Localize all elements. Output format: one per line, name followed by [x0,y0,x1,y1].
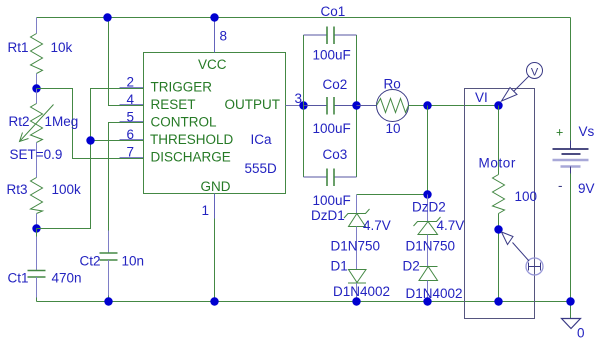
wire cap ladder right rail [356,35,358,177]
pin stub [120,121,144,123]
svg-text:8: 8 [220,29,228,44]
resistor Rt3 [31,178,43,229]
capacitor Co1 [304,27,357,45]
svg-text:D1N750: D1N750 [331,239,381,254]
svg-text:10n: 10n [122,254,145,269]
node zener row junction [423,190,431,198]
svg-text:D1N4002: D1N4002 [406,286,463,301]
node Ro right / zener branch [423,101,431,109]
capacitor Co3 [304,169,357,187]
svg-text:Vs: Vs [579,124,595,139]
node D2 ground [423,297,431,305]
node pin1 ground [210,297,218,305]
pin stub [120,87,144,89]
svg-text:4.7V: 4.7V [437,218,465,233]
svg-text:4: 4 [127,92,135,107]
svg-text:470n: 470n [52,271,82,286]
wire battery to bottom rail [570,167,572,302]
voltage probe V marker [502,63,543,102]
wire motor top lead [498,106,500,175]
svg-text:CONTROL: CONTROL [151,115,217,130]
svg-text:RESET: RESET [151,97,196,112]
resistor Motor 100 [493,175,505,214]
wire motor bottom lead [498,214,500,302]
wire zener row horizontal [357,194,428,196]
svg-text:1Meg: 1Meg [45,114,79,129]
svg-text:D1N750: D1N750 [406,239,456,254]
svg-text:+: + [556,126,563,140]
svg-text:D1: D1 [331,259,348,274]
diode D2 [419,267,438,302]
svg-text:4.7V: 4.7V [363,218,391,233]
svg-text:Co2: Co2 [323,77,348,92]
pin 8 stub [214,18,216,53]
svg-text:3: 3 [295,91,303,106]
wire to Ro [357,105,377,107]
svg-text:Ct1: Ct1 [8,271,29,286]
svg-text:Motor: Motor [479,156,517,171]
svg-text:9V: 9V [578,181,595,196]
svg-text:DzD2: DzD2 [412,200,446,215]
node output / cap left rail [299,101,307,109]
capacitor Ct2 [100,231,118,302]
resistor Ro in circle [377,90,409,122]
node D1 ground [352,297,360,305]
capacitor Ct1 [28,229,46,302]
node Rt3/Ct1 junction [32,224,40,232]
svg-text:-: - [558,178,563,193]
svg-text:ICa: ICa [251,132,273,147]
svg-text:D1N4002: D1N4002 [333,284,390,299]
svg-text:OUTPUT: OUTPUT [225,97,281,112]
current probe H marker [502,232,544,275]
svg-text:555D: 555D [245,161,278,176]
node Ct2 ground [104,297,112,305]
node pin6 junction [86,136,94,144]
diode D1 [348,270,366,302]
battery Vs [553,141,589,174]
wire trigger/threshold net [37,89,144,229]
svg-text:6: 6 [127,127,135,142]
svg-text:Ct2: Ct2 [80,254,101,269]
svg-text:Rt3: Rt3 [7,182,28,197]
wire discharge: node A to pin7 [37,89,144,159]
svg-text:100uF: 100uF [313,193,351,208]
resistor Rt2 (variable) [20,89,54,178]
svg-text:0: 0 [577,326,585,341]
svg-text:GND: GND [201,179,231,194]
node cap right rail / Ro [352,101,360,109]
wire cap ladder left rail [303,35,305,177]
pin stub [120,104,144,106]
pin 3 output wire [286,105,304,107]
svg-text:VI: VI [475,90,488,105]
svg-text:10k: 10k [51,40,73,55]
svg-text:100k: 100k [52,182,82,197]
svg-text:Rt2: Rt2 [9,114,30,129]
svg-text:10: 10 [386,121,401,136]
svg-text:2: 2 [127,75,135,90]
wire pin6 branch [91,140,144,142]
svg-text:D2: D2 [403,259,420,274]
pin stub [120,139,144,141]
VI measurement box [465,89,535,319]
node Rt1/Rt2 junction [32,84,40,92]
node motor top [494,101,502,109]
node motor ground [494,297,502,305]
svg-text:Ro: Ro [384,77,401,92]
svg-text:VCC: VCC [198,57,227,72]
resistor Rt1 [31,34,43,89]
diode DzD1 zener [344,195,370,270]
wire right rail to battery [570,18,572,149]
ground symbol 0 [562,319,581,329]
node top rail pin8 [210,13,218,21]
pin stub [120,157,144,159]
svg-text:V: V [531,67,539,79]
svg-text:TRIGGER: TRIGGER [151,80,213,95]
wire Ro to motor node [409,105,499,107]
svg-text:Co1: Co1 [321,4,346,19]
wire reset pin4 from top rail [109,18,144,106]
diode DzD2 zener [414,195,441,267]
wire top rail [37,17,571,19]
node battery ground rail [566,297,574,305]
wire zener branch vertical [427,106,429,195]
op-amp U1 555 timer box ICa [144,53,286,194]
wire ground stub [570,302,572,319]
svg-text:100uF: 100uF [313,48,351,63]
node top rail / reset [103,13,111,21]
node motor bottom probe [494,225,502,233]
svg-text:5: 5 [127,110,135,125]
svg-text:DzD1: DzD1 [311,208,345,223]
svg-text:DISCHARGE: DISCHARGE [151,150,231,165]
svg-text:SET=0.9: SET=0.9 [10,147,63,162]
wire control pin5 to Ct2 [109,123,144,231]
capacitor Co2 [304,97,357,115]
svg-text:Co3: Co3 [323,147,348,162]
svg-text:100uF: 100uF [313,121,351,136]
pin 1 stub [214,194,216,302]
svg-text:100: 100 [515,189,538,204]
svg-text:1: 1 [202,203,210,218]
svg-text:Rt1: Rt1 [8,40,29,55]
wire left rail top [36,18,38,34]
wire bottom rail [37,301,571,303]
svg-text:7: 7 [127,145,135,160]
svg-text:THRESHOLD: THRESHOLD [150,132,234,147]
